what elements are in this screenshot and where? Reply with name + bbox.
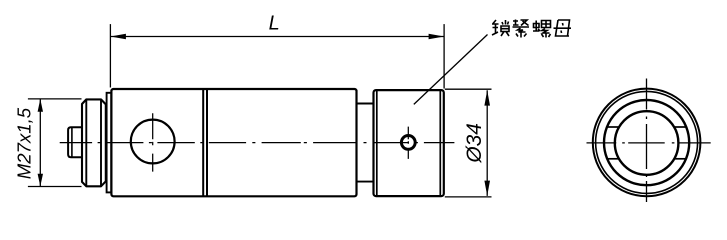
end view bore circle	[615, 111, 679, 175]
dimension M27x1,5 line	[39, 99, 41, 187]
end view thread circle	[604, 100, 689, 185]
dimension Ø34 arrow top	[484, 90, 490, 105]
lock nut tommy hole	[401, 136, 415, 150]
end view flat chord bottom left	[607, 158, 619, 160]
dimension Ø34 arrow bottom	[484, 181, 490, 196]
junction double line	[203, 90, 207, 196]
dimension L extension line right	[443, 24, 445, 88]
end view outer circle	[593, 89, 701, 197]
dimension Ø34 line	[486, 90, 488, 196]
dimension L line	[110, 36, 444, 38]
svg-text:M27x1,5: M27x1,5	[13, 107, 34, 179]
washer collar	[107, 93, 112, 193]
nipple (left end pin)	[68, 127, 82, 157]
end view flat chord bottom right	[674, 158, 686, 160]
nipple step line	[71, 128, 73, 157]
dimension L extension line left	[109, 24, 111, 87]
dimension M27x1,5 extension line bottom	[28, 186, 82, 188]
cross hole circle	[131, 120, 175, 164]
dimension M27x1,5 arrow bottom	[38, 174, 43, 187]
wire centerline main horizontal	[60, 142, 455, 144]
neck groove bottom edge	[357, 181, 374, 183]
neck groove top edge	[357, 103, 374, 105]
glyph 锁	[492, 20, 509, 36]
thread chamfer line left	[85, 100, 87, 187]
svg-text:L: L	[269, 13, 280, 35]
thread nut M27 profile	[82, 99, 106, 186]
end view flat chord top left	[607, 126, 619, 128]
tommy hole vertical centerline	[407, 127, 409, 159]
cross hole vertical centerline	[152, 113, 154, 171]
lock nut chamfer line right	[439, 91, 441, 196]
svg-text:Ø34: Ø34	[463, 123, 486, 164]
end view horizontal centerline	[587, 142, 711, 144]
label 锁紧螺母 hand drawn glyphs	[492, 20, 571, 38]
end view vertical centerline	[646, 79, 648, 203]
dimension Ø34 extension line top	[445, 88, 492, 90]
lock nut chamfer line left	[376, 91, 378, 196]
main body Ø34	[111, 89, 356, 196]
dimension M27x1,5 arrow top	[38, 99, 43, 112]
thread chamfer line right	[100, 100, 102, 187]
glyph 母	[554, 20, 572, 36]
lock nut body	[374, 90, 444, 196]
end view chamfer circle	[596, 91, 698, 193]
end view flat chord top right	[674, 126, 686, 128]
glyph 螺	[533, 21, 551, 38]
dimension L arrow right	[429, 34, 445, 40]
leader line to lock nut	[414, 35, 488, 105]
glyph 紧	[513, 20, 530, 38]
dimension L arrow left	[110, 34, 126, 40]
dimension M27x1,5 extension line top	[28, 98, 82, 100]
dimension Ø34 extension line bottom	[445, 196, 492, 198]
